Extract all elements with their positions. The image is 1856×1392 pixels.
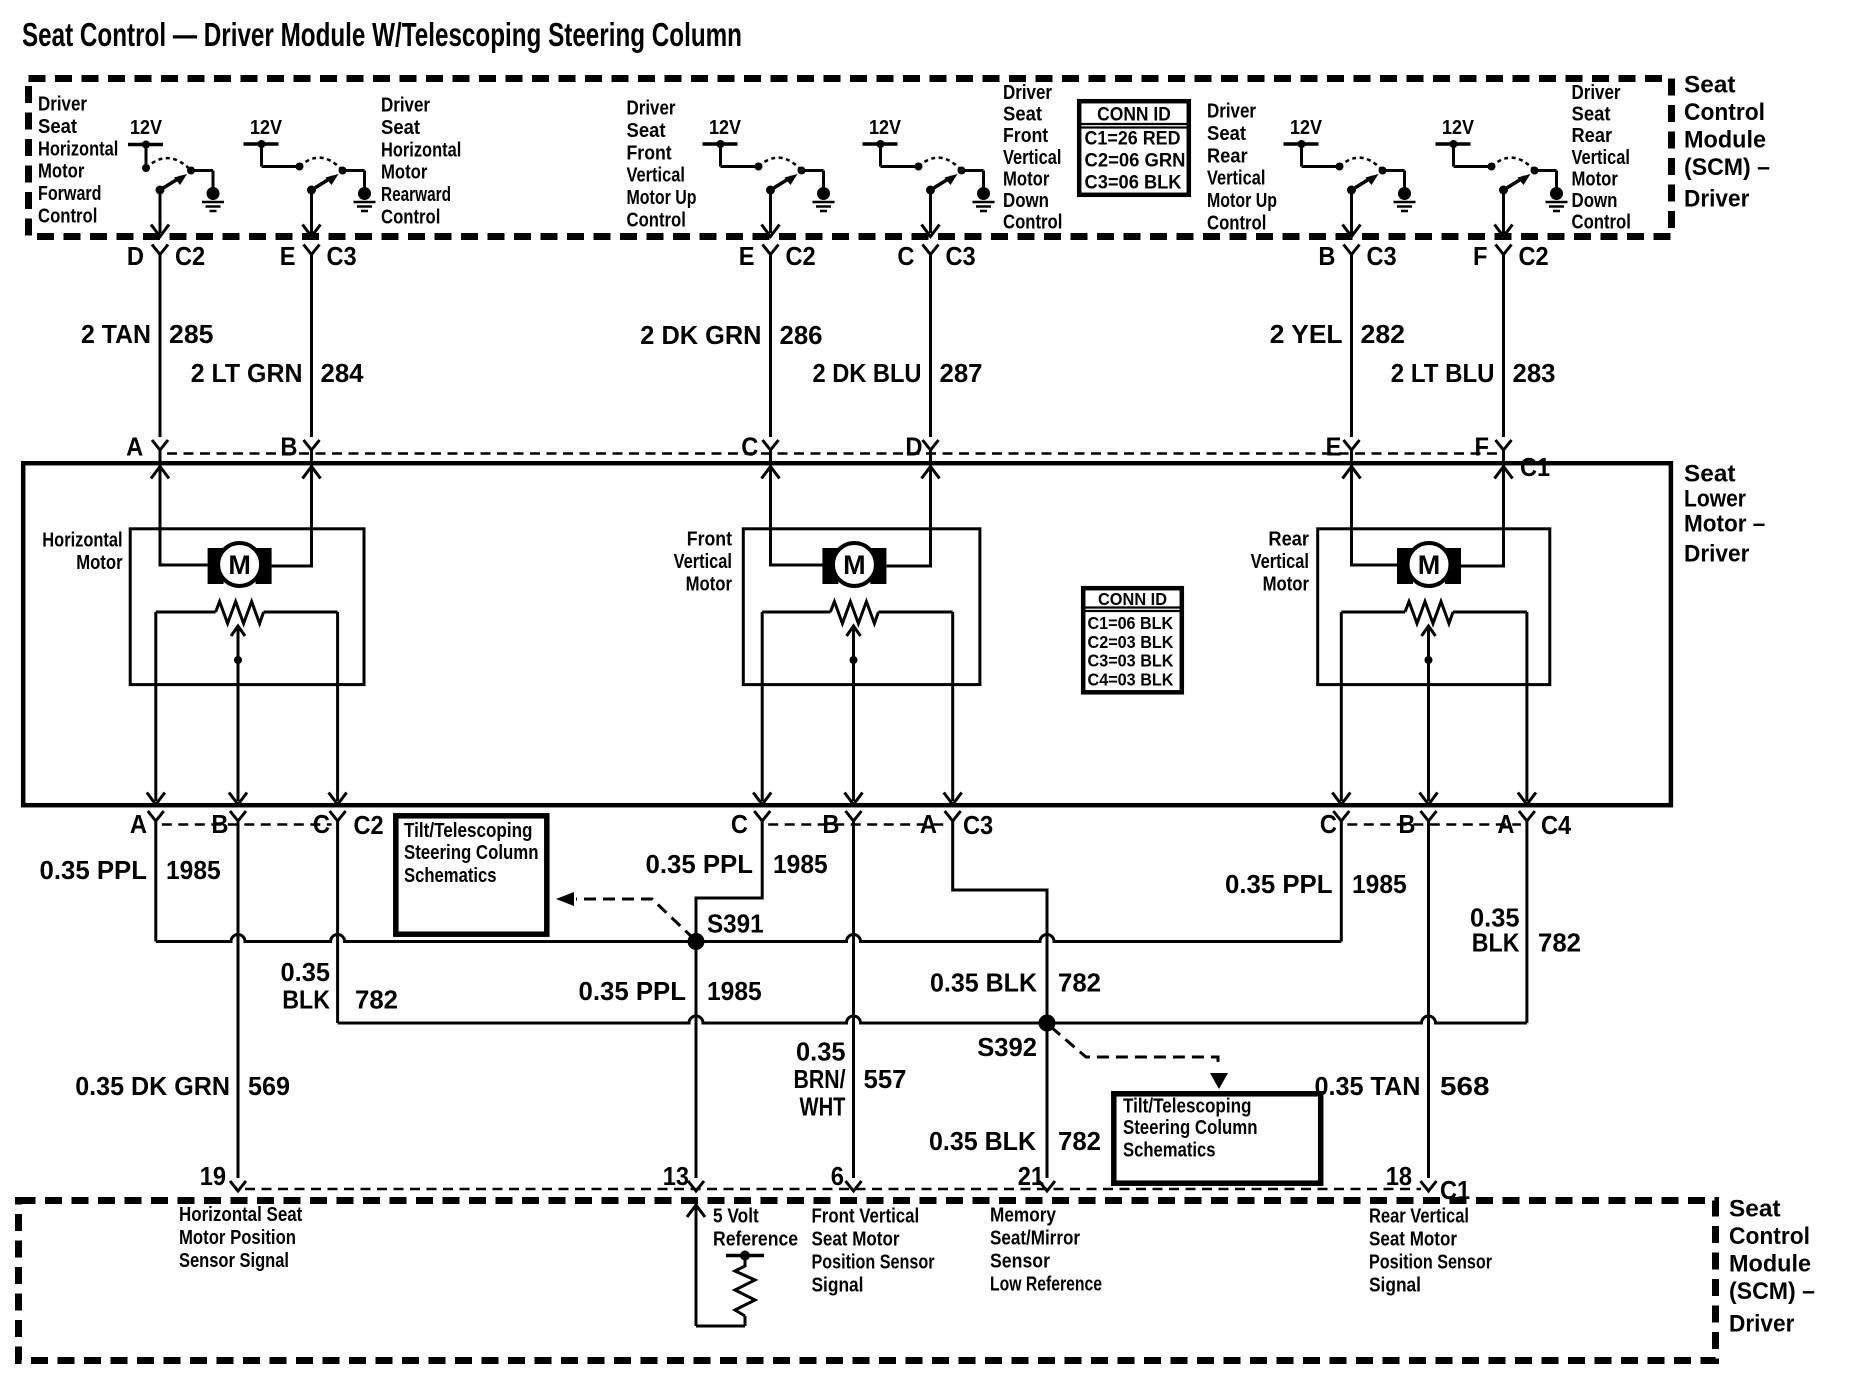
wire potentiometer right lead M1 [329,612,347,805]
svg-text:C3=03 BLK: C3=03 BLK [1088,651,1174,671]
Tilt/Telescoping Steering Column Schematics box 1 [396,816,547,934]
svg-text:2 DK GRN: 2 DK GRN [640,320,761,350]
Seat Control Module (SCM) Driver - top dashed box [29,79,1672,237]
svg-text:Signal: Signal [812,1275,864,1297]
svg-text:D: D [127,241,144,271]
ground switch 3 [813,187,835,211]
switch S5 contacts and throw arc [1340,158,1405,188]
svg-text:Position Sensor: Position Sensor [1369,1252,1492,1274]
wire motor M1 terminal B [272,463,321,566]
svg-text:18: 18 [1386,1161,1412,1191]
connector pin B C4 (motor M3) [1398,809,1436,839]
svg-text:C2=06 GRN: C2=06 GRN [1085,150,1186,172]
svg-text:B: B [211,809,228,839]
svg-text:Module: Module [1684,126,1766,153]
svg-text:Front: Front [1003,125,1049,147]
bus wire 1985 0.35 PPL (S391 horizontal run) [156,935,1342,942]
svg-text:0.35: 0.35 [281,957,331,987]
svg-text:782: 782 [1538,928,1581,958]
svg-text:S391: S391 [707,909,764,939]
connector dashed line (bottom SCM) [245,1188,1421,1191]
svg-text:Seat: Seat [627,120,666,142]
svg-text:Horizontal: Horizontal [38,138,118,160]
svg-text:Seat: Seat [1684,460,1736,487]
svg-text:Seat: Seat [1572,104,1611,126]
svg-text:Horizontal: Horizontal [381,139,461,161]
CONN ID table C1/C2/C3 (top) [1079,101,1189,195]
svg-text:BLK: BLK [282,985,330,1015]
svg-text:Horizontal Seat: Horizontal Seat [179,1204,303,1226]
svg-text:Control: Control [1207,213,1266,235]
switch S2 wiper arm [307,174,339,195]
wire 283 2 LT BLU [1391,253,1556,437]
wire 284 2 LT GRN [191,253,364,437]
connector pin C C4 (motor M3) [1320,809,1349,839]
svg-text:C3: C3 [1367,241,1397,271]
12V supply switch 1 [128,117,163,172]
motor M2 [822,543,886,586]
connector dashed line (motor box top) [167,452,1497,455]
svg-text:Seat: Seat [38,116,77,138]
svg-text:0.35 PPL: 0.35 PPL [646,849,754,879]
connector dashed line motor M2 bottom [768,823,947,826]
svg-text:Seat: Seat [1003,104,1042,126]
svg-text:2 YEL: 2 YEL [1270,319,1343,349]
svg-text:C2: C2 [175,241,205,271]
driver seat horizontal motor forward control label [38,94,118,228]
svg-text:Driver: Driver [627,98,676,120]
svg-text:C: C [897,241,914,271]
svg-text:BRN/: BRN/ [794,1064,846,1094]
connector pin B C3 [1318,241,1396,271]
svg-text:Driver: Driver [1729,1310,1794,1337]
svg-text:Module: Module [1729,1250,1811,1277]
svg-text:Control: Control [1003,212,1062,234]
svg-text:A: A [1497,809,1514,839]
svg-text:12V: 12V [1442,117,1475,139]
svg-text:C2=03 BLK: C2=03 BLK [1088,632,1174,652]
connector pin C C2 (motor M1) [313,809,346,839]
motor M1 [208,543,272,586]
12V supply switch 4 [863,117,923,171]
svg-text:B: B [1318,241,1335,271]
connector pin F C2 [1473,241,1549,271]
svg-text:BLK: BLK [1472,928,1520,958]
connector pin C C3 (motor M2) [731,809,770,839]
svg-text:(SCM) –: (SCM) – [1729,1278,1815,1305]
svg-text:782: 782 [355,985,398,1015]
Seat Control Module (SCM) Driver - bottom dashed box [19,1201,1716,1361]
switch S2 contacts and throw arc [300,158,365,188]
svg-text:0.35 TAN: 0.35 TAN [1315,1071,1421,1101]
svg-text:Steering Column: Steering Column [1123,1117,1258,1139]
svg-text:Driver: Driver [1684,540,1749,567]
potentiometer motor M1 [156,602,338,624]
svg-text:Signal: Signal [1369,1275,1421,1297]
svg-text:C3: C3 [963,810,993,840]
svg-text:12V: 12V [869,117,902,139]
wire 286 2 DK GRN [640,253,822,437]
wire 285 2 TAN [81,253,214,437]
driver seat rear vertical motor up control label [1207,101,1277,235]
connector pin 13 (SCM bottom) [663,1161,704,1191]
switch S1 wiper arm [156,174,188,195]
svg-text:282: 282 [1361,319,1406,349]
svg-text:568: 568 [1440,1071,1490,1101]
svg-text:A: A [130,809,147,839]
svg-text:2 LT GRN: 2 LT GRN [191,358,303,388]
wire 287 2 DK BLU [813,253,983,437]
svg-text:C2: C2 [786,241,816,271]
svg-text:C2: C2 [354,810,384,840]
svg-text:Control: Control [627,210,686,232]
node S392 [977,1015,1055,1063]
svg-text:Vertical: Vertical [1572,147,1630,169]
svg-text:Vertical: Vertical [1251,551,1309,573]
svg-text:1985: 1985 [773,849,828,879]
svg-text:M: M [843,550,866,580]
svg-text:A: A [920,809,937,839]
wire potentiometer wiper M1 [229,626,247,805]
svg-text:1985: 1985 [1352,869,1407,899]
svg-text:C2: C2 [1519,241,1549,271]
svg-text:21: 21 [1018,1161,1044,1191]
12V supply switch 2 [244,117,304,171]
svg-text:(SCM) –: (SCM) – [1684,154,1770,181]
svg-text:Driver: Driver [1684,185,1749,212]
connector pin E C2 [739,241,816,271]
node S391 [688,909,764,951]
switch S4 contacts and throw arc [919,158,984,188]
connector pin A (seat lower motor C1) [126,432,168,462]
wire motor M3 terminal A [1343,463,1398,565]
svg-text:B: B [280,432,297,462]
wire 5 volt reference (pin 13 internal) [687,1205,745,1326]
svg-text:Driver: Driver [38,94,87,116]
svg-text:C: C [741,432,758,462]
wire switch 2 output to connector [303,190,321,237]
potentiometer motor M2 [762,602,953,624]
connector pin B C3 (motor M2) [822,809,861,839]
svg-text:0.35 BLK: 0.35 BLK [930,968,1037,998]
svg-text:Control: Control [1684,99,1765,126]
wire switch 4 output to connector [922,190,940,237]
svg-text:Motor –: Motor – [1684,510,1765,537]
connector pin B C2 (motor M1) [211,809,246,839]
svg-text:782: 782 [1058,1126,1101,1156]
wire potentiometer right lead M2 [944,612,962,805]
svg-text:Vertical: Vertical [674,551,732,573]
svg-text:Motor Up: Motor Up [1207,190,1277,212]
svg-text:C1: C1 [1520,452,1550,482]
wire motor M2 terminal A [762,463,823,565]
wire motor M2 terminal B [886,463,939,566]
connector pin D (seat lower motor C1) [905,432,938,462]
svg-text:Driver: Driver [381,95,430,117]
svg-text:C1=26 RED: C1=26 RED [1085,128,1181,150]
connector pin 18 (SCM bottom) [1386,1161,1437,1191]
dashed arrow S392 to Tilt box 2 [1051,1027,1228,1089]
svg-text:0.35 PPL: 0.35 PPL [1225,869,1333,899]
connector pin E C3 [280,241,357,271]
svg-text:Vertical: Vertical [1003,147,1061,169]
connector pin B (seat lower motor C1) [280,432,319,462]
connector pin D C2 [127,241,205,271]
svg-text:285: 285 [169,319,214,349]
svg-text:Motor: Motor [1263,574,1310,596]
svg-text:12V: 12V [709,117,742,139]
svg-text:Schematics: Schematics [1123,1140,1216,1162]
connector pin C (seat lower motor C1) [741,432,778,462]
wire switch 6 output to connector [1495,190,1513,237]
wire switch 1 output to connector [151,190,169,237]
svg-text:Motor: Motor [38,161,85,183]
svg-text:Rear Vertical: Rear Vertical [1369,1206,1469,1228]
svg-text:E: E [1326,432,1342,462]
svg-text:0.35 BLK: 0.35 BLK [929,1126,1036,1156]
svg-text:Low Reference: Low Reference [990,1274,1102,1296]
ground switch 1 [202,187,224,211]
svg-text:Seat: Seat [1729,1195,1781,1222]
svg-text:12V: 12V [250,117,283,139]
wire potentiometer left lead M1 [147,612,165,805]
ground switch 4 [973,187,995,211]
svg-text:Control: Control [38,206,97,228]
svg-text:CONN ID: CONN ID [1097,104,1171,126]
svg-text:Down: Down [1003,190,1049,212]
dashed arrow S391 to Tilt box 1 [556,892,694,939]
connector pin 6 (SCM bottom) [831,1161,862,1191]
CONN ID table C1-C4 (motor box) [1083,588,1182,692]
svg-text:Sensor: Sensor [990,1251,1050,1273]
ground switch 2 [354,187,376,211]
svg-text:Front: Front [627,142,673,164]
svg-text:Control: Control [1729,1223,1810,1250]
svg-text:F: F [1475,432,1490,462]
svg-text:Sensor Signal: Sensor Signal [179,1250,289,1272]
wire 782 0.35 BLK (motor2 A to S392) [930,820,1101,1022]
svg-text:Steering Column: Steering Column [404,842,539,864]
switch S4 wiper arm [926,174,958,195]
svg-text:Schematics: Schematics [404,865,497,887]
motor M3 assembly box [1318,529,1550,685]
wire potentiometer wiper M2 [845,626,863,805]
svg-text:Seat: Seat [1684,71,1736,98]
svg-text:19: 19 [200,1161,226,1191]
svg-text:Driver: Driver [1003,82,1052,104]
switch S5 wiper arm [1347,174,1379,195]
switch S1 contacts and throw arc [146,158,213,187]
svg-text:Down: Down [1572,190,1618,212]
svg-text:Motor Up: Motor Up [627,187,697,209]
svg-text:B: B [822,809,839,839]
svg-text:Motor: Motor [686,574,733,596]
svg-text:Motor Position: Motor Position [179,1227,296,1249]
svg-text:Vertical: Vertical [1207,168,1265,190]
wire 1985 0.35 PPL (motor2 C to S391) [646,820,828,940]
svg-text:Rearward: Rearward [381,184,451,206]
motor M1 assembly box [130,529,364,685]
svg-text:C3=06 BLK: C3=06 BLK [1085,171,1182,193]
svg-text:Reference: Reference [713,1229,798,1251]
svg-text:Seat Control — Driver Module W: Seat Control — Driver Module W/Telescopi… [22,16,742,53]
svg-text:283: 283 [1513,358,1556,388]
svg-text:2 LT BLU: 2 LT BLU [1391,358,1495,388]
svg-text:Seat: Seat [381,117,420,139]
svg-text:Tilt/Telescoping: Tilt/Telescoping [1123,1096,1252,1118]
svg-text:Rear: Rear [1572,125,1613,147]
svg-text:Motor: Motor [1003,168,1050,190]
Seat Lower Motor - Driver box [23,463,1671,805]
svg-text:287: 287 [940,358,983,388]
connector pin A C4 (motor M3) [1497,809,1535,839]
driver seat front vertical motor up control label [627,98,697,232]
label Horizontal Seat Motor Position Sensor Signal [179,1204,303,1272]
svg-text:0.35 DK GRN: 0.35 DK GRN [75,1071,230,1101]
wire potentiometer left lead M2 [753,612,771,805]
label Rear Vertical Seat Motor Position Sensor Signal [1369,1206,1492,1297]
svg-text:Front: Front [687,529,733,551]
svg-text:Driver: Driver [1572,82,1621,104]
driver seat front vertical motor down control label [1003,82,1062,234]
wire 1985 0.35 PPL (motor1 A to S391 bus) [40,820,221,942]
label Memory Seat/Mirror Sensor Low Reference [990,1205,1102,1296]
svg-text:0.35 PPL: 0.35 PPL [40,855,148,885]
svg-text:CONN ID: CONN ID [1098,589,1167,609]
svg-text:Front Vertical: Front Vertical [812,1206,920,1228]
connector pin A C2 (motor M1) [130,809,164,839]
svg-text:569: 569 [248,1071,290,1101]
bus wire 782 0.35 BLK (S392 horizontal run) [338,1016,1527,1023]
connector pin E (seat lower motor C1) [1326,432,1360,462]
connector pin 19 (SCM bottom) [200,1161,246,1191]
svg-text:Motor: Motor [76,552,123,574]
svg-text:E: E [739,241,755,271]
ground switch 5 [1394,187,1416,211]
svg-text:A: A [126,432,143,462]
wire 569 0.35 DK GRN (motor1 B to pin 19) [75,820,290,1179]
connector dashed line motor M3 bottom [1347,823,1521,826]
connector pin F (seat lower motor C1) [1475,432,1512,462]
wire potentiometer wiper M3 [1420,626,1438,805]
svg-text:Driver: Driver [1207,101,1256,123]
svg-text:S392: S392 [977,1032,1037,1062]
svg-text:284: 284 [321,358,365,388]
svg-text:C3: C3 [946,241,976,271]
wire switch 5 output to connector [1343,190,1361,237]
svg-text:Position Sensor: Position Sensor [812,1252,935,1274]
wire 1985 0.35 PPL (motor3 C to S391 bus end) [1225,820,1407,942]
svg-text:C4: C4 [1541,810,1572,840]
12V supply switch 3 [703,117,763,171]
svg-text:1985: 1985 [166,855,221,885]
svg-text:Horizontal: Horizontal [42,529,122,551]
svg-text:12V: 12V [130,117,163,139]
svg-text:Tilt/Telescoping: Tilt/Telescoping [404,820,533,842]
svg-text:D: D [905,432,922,462]
svg-text:C: C [731,809,748,839]
svg-text:Vertical: Vertical [627,165,685,187]
wire 782 0.35 BLK (S392 to pin 21) [929,1023,1101,1178]
svg-text:Lower: Lower [1684,485,1746,512]
svg-text:Rear: Rear [1207,145,1248,167]
svg-text:Seat Motor: Seat Motor [812,1229,900,1251]
12V supply switch 5 [1284,117,1344,171]
potentiometer motor M3 [1341,602,1527,624]
wire potentiometer left lead M3 [1332,612,1350,805]
label Front Vertical Seat Motor Position Sensor Signal [812,1206,935,1297]
svg-text:Memory: Memory [990,1205,1057,1227]
Rear Vertical Motor label [1251,529,1310,596]
switch S6 contacts and throw arc [1492,158,1557,188]
label 5 Volt Reference [713,1206,798,1251]
switch S3 contacts and throw arc [759,158,824,188]
svg-text:286: 286 [780,320,823,350]
wire motor M1 terminal A [151,463,208,565]
svg-text:WHT: WHT [800,1092,846,1122]
resistor 5 volt reference [726,1251,764,1317]
svg-text:2 TAN: 2 TAN [81,319,151,349]
svg-text:E: E [280,241,296,271]
svg-text:Motor: Motor [381,162,428,184]
svg-text:Control: Control [1572,212,1631,234]
svg-text:0.35 PPL: 0.35 PPL [579,976,687,1006]
svg-text:M: M [228,550,251,580]
svg-text:Seat/Mirror: Seat/Mirror [990,1228,1080,1250]
wire 557 0.35 BRN/WHT (motor2 B to pin 6) [794,820,907,1179]
svg-text:C: C [1320,809,1337,839]
svg-text:C3: C3 [327,241,357,271]
wire potentiometer right lead M3 [1518,612,1536,805]
svg-text:C: C [313,809,330,839]
driver seat rear vertical motor down control label [1572,82,1631,234]
Front Vertical Motor label [674,529,733,596]
svg-text:13: 13 [663,1161,689,1191]
svg-text:Seat Motor: Seat Motor [1369,1229,1457,1251]
svg-text:M: M [1418,550,1441,580]
svg-text:C1=06 BLK: C1=06 BLK [1088,613,1174,633]
connector pin 21 (SCM bottom) [1018,1161,1055,1191]
svg-text:Control: Control [381,207,440,229]
wire motor M3 terminal B [1461,463,1513,566]
svg-text:C4=03 BLK: C4=03 BLK [1088,669,1174,689]
svg-text:6: 6 [831,1161,844,1191]
svg-text:1985: 1985 [707,976,762,1006]
svg-text:2 DK BLU: 2 DK BLU [813,358,922,388]
svg-text:557: 557 [864,1064,907,1094]
wire 782 0.35 BLK (motor3 A to S392 bus end) [1470,820,1581,1024]
svg-text:Motor: Motor [1572,168,1619,190]
wire 1985 0.35 PPL (S391 to pin 13) [579,942,762,1179]
svg-text:B: B [1398,809,1415,839]
wire 568 0.35 TAN (motor3 B to pin 18) [1315,820,1490,1179]
driver seat horizontal motor rearward control label [381,95,461,229]
switch S6 wiper arm [1499,174,1531,195]
motor M3 [1397,543,1461,586]
wire 282 2 YEL [1270,253,1405,437]
svg-text:Rear: Rear [1268,529,1309,551]
svg-text:Seat: Seat [1207,123,1246,145]
wire switch 3 output to connector [762,190,780,237]
svg-text:Forward: Forward [38,183,102,205]
connector dashed line motor M1 bottom [162,823,332,826]
connector pin C C3 [897,241,975,271]
svg-text:12V: 12V [1290,117,1323,139]
Tilt/Telescoping Steering Column Schematics box 2 [1114,1094,1321,1183]
connector pin A C3 (motor M2) [920,809,961,839]
12V supply switch 6 [1436,117,1496,171]
wire 782 0.35 BLK (motor1 C to S392 bus) [281,820,399,1024]
